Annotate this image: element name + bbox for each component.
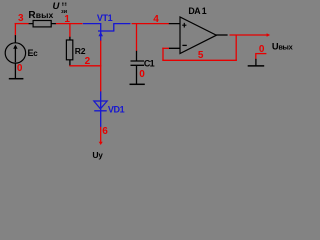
wire: feedback vertical right [235, 35, 237, 60]
svg-text:DA 1: DA 1 [188, 6, 206, 16]
diode VD1 lead blue through triangle [100, 91, 102, 127]
resistor R2 body [66, 40, 72, 60]
transistor VT1 source with arrow (blue) [100, 31, 102, 41]
diode VD1 triangle [94, 101, 107, 109]
source Ec bottom lead + ground [14, 63, 16, 79]
svg-text:VD1: VD1 [108, 105, 125, 115]
wire: R2 bottom to source/diode vertical (red) [69, 65, 101, 67]
wire: feedback bottom [162, 59, 237, 61]
capacitor C1 lead black bottom [136, 65, 138, 84]
wire: drain rail to opamp + (red) [132, 23, 169, 25]
svg-text:0: 0 [139, 69, 145, 80]
resistor R2 leads black [69, 37, 71, 66]
wire: R2 top lead red part [69, 23, 71, 37]
svg-text:5: 5 [198, 50, 204, 61]
wire: diode to Uy arrow (red) [100, 127, 102, 142]
transistor VT1 channel bar (blue) [98, 30, 114, 32]
arrow right at output [267, 33, 271, 36]
wire: rail Rout to R2 junction to VT1 gate (red) [56, 23, 83, 25]
svg-text:R2: R2 [75, 46, 86, 56]
transistor VT1 drain (blue) [113, 24, 130, 31]
capacitor C1 lead black top [136, 51, 138, 61]
resistor Rout body [33, 21, 51, 27]
wire: top rail from corner to Rout left lead (red) [15, 23, 29, 25]
diode VD1 cathode bar [94, 110, 107, 112]
ground under C1 [130, 83, 145, 85]
wire: output red to Uvix arrow [230, 34, 268, 36]
svg-text:3: 3 [18, 13, 24, 24]
svg-text:Uу: Uу [92, 150, 103, 160]
svg-text:U: U [53, 1, 61, 12]
svg-text:0: 0 [17, 63, 23, 74]
capacitor C1 plates [131, 61, 145, 65]
wire: source of VT1 down to diode (red) [100, 41, 102, 92]
ground under source [9, 78, 24, 80]
arrow down at Uy [99, 142, 103, 145]
source Ec inner arrow [14, 48, 16, 62]
svg-text:VT1: VT1 [97, 13, 113, 23]
source Ec circle [5, 43, 25, 63]
resistor Rout (Rvyh) leads black [29, 23, 57, 25]
wire: junction down to C1 (red) [136, 23, 138, 51]
right ground stub wire red [255, 53, 266, 55]
wire: feedback left vertical [162, 48, 164, 61]
opamp output lead black [216, 34, 228, 36]
svg-text:6: 6 [102, 126, 108, 137]
svg-text:4: 4 [153, 14, 159, 25]
opamp DA1 triangle [180, 17, 216, 54]
opamp DA1 input leads black [169, 24, 180, 49]
wire: feedback to minus input [162, 47, 169, 49]
ground right [248, 65, 265, 67]
svg-text:Rвых: Rвых [28, 10, 53, 21]
svg-text:0: 0 [259, 44, 265, 55]
transistor VT1 gate wire (blue) [83, 23, 101, 31]
opamp minus sign [182, 44, 186, 46]
svg-text:C1: C1 [144, 58, 155, 68]
svg-text:Uвых: Uвых [272, 42, 293, 52]
wire: vertical from corner down to source Ec (red) [14, 23, 16, 35]
right ground lead black [255, 59, 257, 66]
opamp plus sign [182, 23, 186, 28]
svg-text:Ec: Ec [28, 48, 39, 58]
source Ec top lead black [14, 35, 16, 43]
